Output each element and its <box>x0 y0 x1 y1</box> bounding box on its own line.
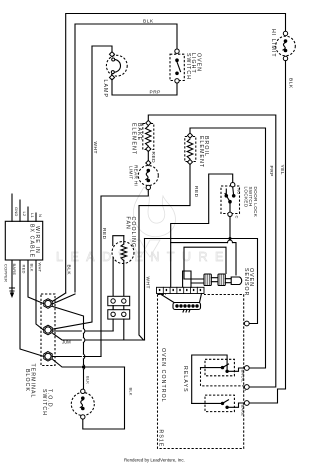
svg-text:JUM: JUM <box>62 340 71 345</box>
BX output wires to terminal block <box>20 260 44 356</box>
svg-text:BLK: BLK <box>287 78 293 89</box>
svg-text:BX CABLE: BX CABLE <box>29 224 35 258</box>
svg-text:Rendered by LeadVenture, Inc.: Rendered by LeadVenture, Inc. <box>124 458 185 463</box>
wire broil bottom RED down-left-down <box>139 164 190 340</box>
svg-text:ELEMENT: ELEMENT <box>198 136 204 168</box>
junction: TOD feed on lug3 bus <box>82 365 85 368</box>
lamp bottom to switch bottom (PRP) <box>112 79 177 95</box>
fan leads down to jumper block <box>112 258 114 297</box>
svg-text:LIMIT: LIMIT <box>129 166 134 180</box>
svg-text:PRP: PRP <box>268 166 274 177</box>
wire: BLK right side from hi-limit down <box>247 61 286 403</box>
oven light switch S2 <box>170 54 184 80</box>
svg-text:BARE: BARE <box>12 264 17 276</box>
TOD return wire <box>83 367 125 429</box>
supply stubs <box>12 194 36 221</box>
svg-text:RS1E: RS1E <box>158 430 164 448</box>
WATERMARK <box>56 187 231 264</box>
relay bracket wire <box>192 355 227 403</box>
rear hi limit <box>138 166 158 186</box>
ground wire BARE COPPER <box>10 260 15 293</box>
connector plug under strip <box>173 303 201 310</box>
wire WHT middle vertical <box>144 239 146 341</box>
lug 1 <box>44 299 52 309</box>
lug 2 <box>44 325 52 335</box>
relay K2 bake <box>205 395 234 412</box>
svg-text:RELAYS: RELAYS <box>182 366 188 393</box>
svg-text:COPPER: COPPER <box>4 264 9 282</box>
bake element <box>143 124 154 150</box>
svg-text:ELEMENT: ELEMENT <box>131 123 137 155</box>
wire: inner top line to oven light switch <box>75 24 177 292</box>
svg-text:L2: L2 <box>22 212 27 217</box>
svg-text:BLOCK: BLOCK <box>24 369 30 392</box>
relay K1 coil feed (dashed wire from YEL terminal) <box>201 368 244 386</box>
svg-text:BLK: BLK <box>66 265 72 276</box>
lug3 wires <box>53 357 125 368</box>
svg-text:WHT: WHT <box>37 263 42 273</box>
svg-text:RED: RED <box>193 186 199 198</box>
svg-text:SWITCH: SWITCH <box>185 53 191 80</box>
oven control dashed box <box>158 295 244 449</box>
svg-text:WHT: WHT <box>144 277 150 289</box>
relay K1 broil <box>205 359 234 376</box>
lug 3 <box>44 352 52 362</box>
svg-text:GND: GND <box>14 207 19 217</box>
svg-text:BLK: BLK <box>85 376 90 384</box>
wire H2 to sensor probe, hop over C wire <box>171 243 236 275</box>
svg-text:BAKE: BAKE <box>240 405 245 417</box>
svg-text:YEL: YEL <box>279 165 285 176</box>
wire: WHT lamp feed vertical <box>48 46 92 330</box>
svg-text:BLK: BLK <box>29 264 34 272</box>
lug2 wires <box>53 331 145 340</box>
control board edge terminals <box>244 321 249 326</box>
svg-text:RED: RED <box>101 228 107 240</box>
svg-text:BLK: BLK <box>128 388 133 396</box>
terminal block dashed box <box>41 294 55 366</box>
svg-text:L1: L1 <box>30 213 35 218</box>
wire rear hi limit bottom to RED left vertical <box>84 190 149 357</box>
svg-text:WHT: WHT <box>92 142 98 154</box>
wire: strip-to-connector trapezoid + sensor stub <box>160 283 202 303</box>
svg-text:HI LIMIT: HI LIMIT <box>270 29 276 58</box>
junction: door-lock C wire on H1 <box>229 237 232 240</box>
broil element top wire to PRP <box>190 128 266 368</box>
cooling fan motor <box>112 242 134 264</box>
lamp branch wire top <box>92 46 112 53</box>
broil element <box>185 137 196 162</box>
svg-text:LOCKED: LOCKED <box>244 187 249 208</box>
wire door lock feed from broil-top line down <box>171 174 233 287</box>
svg-text:RED: RED <box>150 152 156 164</box>
wire door lock C down to H1 junction <box>229 217 231 239</box>
svg-text:BROIL: BROIL <box>240 370 245 384</box>
cooling fan branch hook <box>113 236 124 246</box>
svg-text:SENSOR: SENSOR <box>243 268 249 297</box>
oven sensor wires <box>184 247 226 279</box>
jumper leads down to buses <box>113 319 124 340</box>
svg-text:RED: RED <box>21 265 26 274</box>
svg-text:SWITCH: SWITCH <box>41 389 47 416</box>
oven sensor probe <box>231 277 241 285</box>
svg-text:LEADVENTURE: LEADVENTURE <box>56 250 231 264</box>
oven sensor connector blocks <box>204 274 231 286</box>
svg-text:BLK: BLK <box>143 19 154 25</box>
jumper block 1 <box>108 296 130 305</box>
bake element top wire to YEL <box>148 115 275 387</box>
svg-text:C: C <box>235 216 240 219</box>
door lock switch <box>221 186 240 214</box>
lug1 wires <box>52 293 83 389</box>
wire in BX cable box <box>5 221 42 260</box>
terminal strip screw marks <box>159 289 201 291</box>
svg-text:OVEN CONTROL: OVEN CONTROL <box>160 348 166 403</box>
wire bake bottom RED <box>147 151 149 162</box>
hi limit switch right top <box>276 36 296 56</box>
terminal strip P1 <box>157 287 205 293</box>
svg-text:N: N <box>38 214 43 217</box>
svg-text:NO: NO <box>237 188 242 194</box>
jumper block 2 <box>112 306 114 310</box>
wire: top outer BLK line + left border <box>66 14 286 294</box>
svg-text:LAMP: LAMP <box>102 80 108 99</box>
svg-text:FAN: FAN <box>125 217 131 230</box>
wire H1 to control terminal <box>145 239 258 324</box>
svg-text:PRP: PRP <box>150 90 161 96</box>
lamp L1 <box>106 55 127 76</box>
TOD switch <box>71 393 94 416</box>
